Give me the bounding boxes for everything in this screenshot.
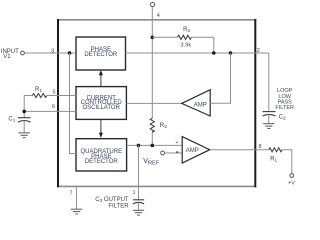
wire CCO output to AMP1 [126,102,181,104]
wire pin 5 [24,95,32,97]
terminal pin 4 [150,2,154,6]
node amp feedback to pin2 line [229,51,233,55]
wire AMP2 output to pin 8 [210,149,269,151]
op-amp AMP1 (points left) [182,90,211,116]
op-amp AMP2 (points right) [182,137,210,164]
resistor R3 [150,118,154,132]
svg-text:4: 4 [157,13,160,19]
ground under C2 [263,124,274,129]
svg-text:+V: +V [288,181,295,187]
svg-text:5: 5 [52,89,55,95]
resistor RL [269,148,282,152]
wire QPD output to AMP2 plus input [127,144,183,146]
svg-text:R1: R1 [35,87,42,94]
wire pin 7 down to ground [76,186,78,209]
svg-text:R2: R2 [183,27,190,34]
wire R1 left end down to C1 [23,96,25,118]
capacitor C1 [18,118,31,133]
svg-text:RL: RL [270,156,277,163]
svg-text:C1: C1 [8,116,15,123]
svg-text:DETECTOR: DETECTOR [84,52,118,58]
wire RL to +V terminal [282,150,292,174]
wire pin 1 down to C3 [138,145,140,199]
wire input junction down to quadrature detector [70,53,77,154]
wire R3 bottom to plus-input node [151,130,153,145]
IC outline box U1 right edge [254,19,256,187]
capacitor C3 [133,200,144,210]
svg-text:AMP: AMP [186,148,199,154]
wire minus terminal to AMP2 [165,152,183,154]
node C1 / pin6 junction [22,110,26,114]
arrow CCO to PHASE DETECTOR [99,70,103,87]
node plus line / R3 [151,144,155,148]
wire phase detector output line (pin 2 net) [126,52,269,54]
svg-text:FILTER: FILTER [108,204,129,210]
ground under C3 [133,210,144,215]
svg-text:6: 6 [52,104,55,110]
svg-text:R3: R3 [160,123,167,130]
svg-text:3.9k: 3.9k [180,43,191,49]
IC outline box U1 bottom edge [57,185,256,187]
svg-text:DETECTOR: DETECTOR [85,159,119,165]
svg-text:2: 2 [257,48,260,54]
svg-text:C2: C2 [279,115,286,122]
node plus line / pin 1 [137,144,141,148]
svg-text:7: 7 [69,190,72,196]
terminal INPUT V1 [21,51,25,55]
ground under pin 7 [71,209,82,214]
svg-text:AMP: AMP [194,102,207,108]
arrow CCO to QUADRATURE PHASE DETECTOR [99,119,103,137]
resistor R1 [32,94,46,98]
wire AMP1 right side feedback to pin2 line [210,53,230,103]
terminal +V [290,174,294,178]
svg-text:8: 8 [258,144,261,150]
label minus input [176,151,178,153]
block CURRENT CONTROLLED OSCILLATOR [76,87,126,120]
capacitor C2 [263,112,276,124]
wire pin 2 down to C2 [268,53,270,111]
node input branch junction [68,51,72,55]
svg-text:+: + [175,140,178,146]
wire R1 to CCO (pin 5) [47,95,76,97]
resistor R2 [152,35,214,53]
label LOOP LOW PASS FILTER [275,88,294,111]
IC outline box U1 top edge [57,19,256,21]
block PHASE DETECTOR [76,37,126,70]
ground under C1 [19,133,30,138]
wire input terminal to phase detector (pin 3) [25,52,76,54]
svg-text:FILTER: FILTER [275,105,294,111]
svg-text:OSCILLATOR: OSCILLATOR [82,105,120,111]
svg-text:V1: V1 [3,54,11,60]
svg-text:VREF: VREF [143,158,160,166]
wire pin 4 vertical down to R3 [151,7,153,119]
node R2 to pin2 line [212,51,216,55]
block QUADRATURE PHASE DETECTOR [76,139,127,171]
terminal AMP2 minus input [161,151,165,155]
svg-text:1: 1 [132,190,135,196]
IC outline box U1 left edge [57,19,59,187]
svg-text:3: 3 [51,48,54,54]
wire pin 6 [24,110,76,112]
node pin4 / R2 junction [151,36,155,40]
